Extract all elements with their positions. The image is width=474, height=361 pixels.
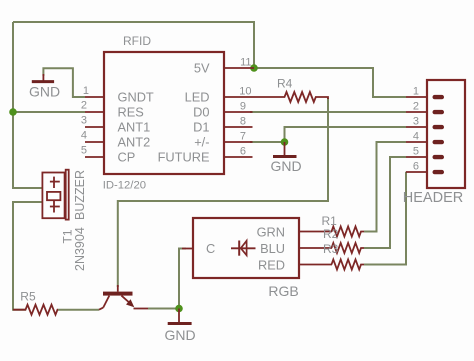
svg-text:R2: R2: [323, 227, 339, 241]
svg-text:CP: CP: [118, 150, 136, 165]
svg-text:BUZZER: BUZZER: [73, 170, 87, 220]
svg-text:RES: RES: [118, 105, 144, 120]
svg-text:1: 1: [83, 85, 89, 97]
svg-text:GRN: GRN: [257, 225, 285, 240]
svg-text:4: 4: [413, 131, 419, 143]
svg-text:7: 7: [240, 131, 246, 143]
svg-text:8: 8: [240, 116, 246, 128]
svg-text:2: 2: [81, 100, 87, 112]
svg-text:10: 10: [239, 86, 251, 98]
svg-text:R5: R5: [20, 290, 36, 304]
svg-text:6: 6: [240, 146, 246, 158]
svg-text:D1: D1: [193, 120, 209, 135]
svg-text:11: 11: [240, 57, 251, 69]
svg-text:LED: LED: [185, 90, 210, 105]
svg-text:FUTURE: FUTURE: [158, 150, 210, 165]
svg-text:9: 9: [240, 101, 246, 113]
svg-text:R4: R4: [277, 77, 293, 91]
svg-text:GND: GND: [164, 327, 195, 343]
svg-text:3: 3: [413, 116, 419, 128]
svg-text:RFID: RFID: [123, 34, 151, 48]
svg-text:GNDT: GNDT: [118, 90, 154, 105]
svg-text:GND: GND: [270, 158, 301, 174]
svg-text:R1: R1: [322, 214, 338, 228]
svg-text:D0: D0: [193, 105, 209, 120]
svg-text:5V: 5V: [194, 61, 210, 76]
svg-text:ANT1: ANT1: [118, 120, 151, 135]
svg-text:BLU: BLU: [260, 241, 285, 256]
svg-text:C: C: [206, 241, 215, 256]
svg-text:3: 3: [81, 115, 87, 127]
svg-text:RED: RED: [258, 258, 285, 273]
svg-text:2N3904: 2N3904: [73, 227, 87, 271]
svg-text:2: 2: [413, 101, 419, 113]
svg-text:ANT2: ANT2: [118, 135, 151, 150]
svg-text:5: 5: [81, 145, 87, 157]
svg-text:HEADER: HEADER: [403, 190, 463, 206]
svg-text:6: 6: [413, 161, 419, 173]
svg-text:1: 1: [413, 86, 419, 98]
svg-text:R3: R3: [323, 242, 339, 256]
svg-text:RGB: RGB: [268, 283, 298, 299]
svg-text:+/-: +/-: [194, 135, 209, 150]
svg-text:GND: GND: [29, 84, 60, 100]
svg-text:5: 5: [413, 146, 419, 158]
svg-text:4: 4: [81, 130, 87, 142]
svg-text:ID-12/20: ID-12/20: [103, 179, 146, 191]
